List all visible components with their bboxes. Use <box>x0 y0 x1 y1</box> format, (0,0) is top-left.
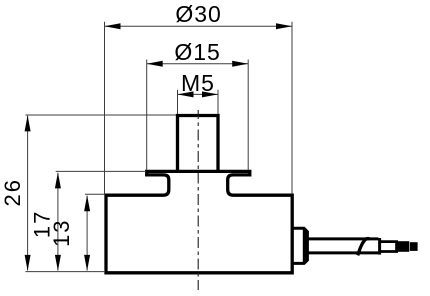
gland hex facet line <box>303 229 307 264</box>
svg-text:Ø15: Ø15 <box>174 39 220 65</box>
dim line 26 <box>27 116 29 271</box>
arrow Ø15 left <box>147 61 163 67</box>
ext line Ø30 left <box>104 22 106 194</box>
connector tip black <box>398 241 409 252</box>
svg-text:26: 26 <box>0 178 25 206</box>
cable end cap <box>378 238 381 255</box>
ext line bottom shared <box>25 271 104 273</box>
ext line M5 right <box>217 90 219 114</box>
arrow Ø30 right <box>276 23 292 29</box>
arrow 17 top <box>55 172 61 188</box>
svg-text:M5: M5 <box>181 70 215 96</box>
vertical centerline <box>197 110 199 290</box>
arrow Ø30 left <box>105 23 121 29</box>
dim line 17 <box>57 173 59 271</box>
cable top line <box>304 237 379 240</box>
arrow 17 bottom <box>55 255 61 271</box>
arrow 26 top <box>25 115 31 131</box>
arrow M5 right <box>202 91 218 97</box>
arrow Ø15 right <box>232 61 248 67</box>
ext line 17 top <box>56 170 146 172</box>
ext line Ø15 left <box>146 60 148 171</box>
ext line 13 top <box>85 193 104 195</box>
connector sleeve <box>381 242 397 252</box>
ext line Ø30 right <box>291 22 293 194</box>
arrow 13 bottom <box>84 255 90 271</box>
ext line Ø15 right <box>247 60 249 171</box>
cable bottom line <box>304 251 379 254</box>
svg-text:Ø30: Ø30 <box>175 1 221 27</box>
arrow 13 top <box>84 195 90 211</box>
dim line M5 <box>178 93 219 95</box>
cable gland nut <box>293 228 308 263</box>
dim line Ø15 <box>147 63 249 65</box>
body outline with flange and relief grooves <box>106 171 292 272</box>
cable break mark <box>358 239 370 256</box>
arrow M5 left <box>178 91 194 97</box>
ext line M5 left <box>177 90 179 114</box>
threaded stud M5 <box>178 116 219 171</box>
dim line 13 <box>86 196 88 271</box>
svg-text:13: 13 <box>49 218 74 246</box>
ext line 26 top <box>25 114 176 116</box>
arrow 26 bottom <box>25 255 31 271</box>
dim line Ø30 <box>105 25 293 27</box>
